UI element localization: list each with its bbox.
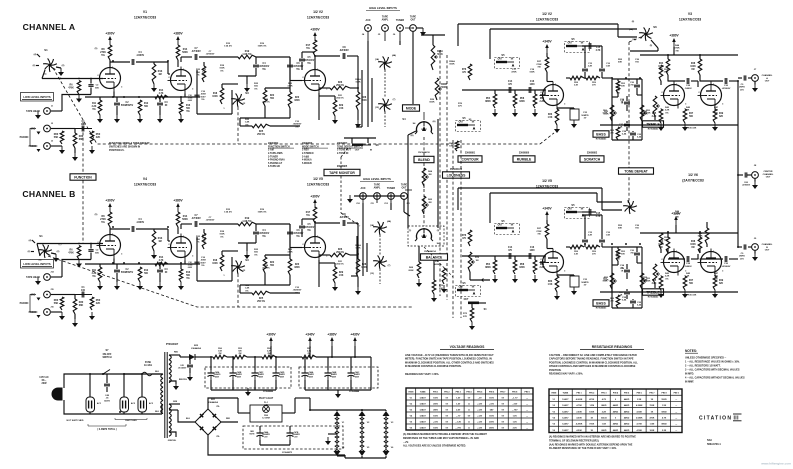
pot TREBLE RV3644242 — [642, 96, 660, 120]
svg-text:C16: C16 — [530, 247, 535, 249]
jack J7 CHANNEL A OUT — [752, 69, 773, 83]
svg-text:(5): (5) — [650, 45, 653, 47]
label SR2 — [191, 345, 202, 350]
wire long top — [458, 188, 622, 210]
svg-text:R33: R33 — [548, 281, 553, 283]
svg-text:V4: V4 — [342, 446, 345, 449]
svg-text:600V: 600V — [200, 96, 206, 98]
resistor R38 270 — [610, 127, 620, 140]
resistor R22 556 — [263, 257, 275, 273]
svg-text:R14: R14 — [159, 256, 164, 259]
resistor R55 820 2W — [233, 348, 247, 359]
svg-text:5%: 5% — [306, 47, 310, 50]
resistor R30 68K — [73, 133, 84, 148]
svg-text:100K: 100K — [219, 234, 225, 236]
svg-text:C9: C9 — [741, 253, 745, 255]
wire — [754, 165, 757, 182]
svg-text:C10: C10 — [295, 287, 300, 289]
wire — [399, 31, 401, 41]
svg-text:1.64 5%: 1.64 5% — [224, 45, 232, 48]
svg-text:S1: S1 — [39, 234, 43, 238]
svg-text:1K: 1K — [621, 271, 624, 273]
dashed gang line function A2 — [540, 133, 554, 144]
svg-text:.1/400V: .1/400V — [136, 221, 145, 224]
resistor R23 556 5% — [196, 57, 206, 82]
wire — [110, 228, 130, 230]
capacitor C2 680 — [88, 244, 99, 260]
svg-text:1.4K: 1.4K — [245, 287, 250, 290]
wire sec redyel — [169, 379, 188, 384]
voltage readings table — [406, 388, 533, 430]
notes list — [685, 357, 745, 384]
svg-text:5%: 5% — [201, 265, 204, 267]
svg-text:VOLTAGE READINGS: VOLTAGE READINGS — [450, 345, 485, 349]
svg-text:(2): (2) — [57, 251, 60, 253]
svg-text:560: 560 — [144, 273, 149, 275]
wire — [640, 47, 738, 55]
svg-text:100K: 100K — [219, 68, 225, 70]
jack J11 TAPE AMPL — [374, 184, 381, 200]
svg-text:MODE: MODE — [406, 106, 417, 110]
svg-text:12AX7: 12AX7 — [420, 415, 427, 418]
resistor R49 820 — [713, 276, 724, 290]
svg-text:470K: 470K — [649, 417, 654, 420]
svg-text:(B): (B) — [411, 135, 414, 137]
wire — [36, 54, 61, 68]
resistor R52 50K — [612, 247, 626, 265]
wire — [640, 225, 738, 233]
svg-text:R27: R27 — [537, 228, 542, 230]
ground — [173, 382, 179, 390]
wire — [256, 223, 290, 225]
svg-text:OUT: OUT — [766, 177, 771, 179]
label CITATION III — [699, 414, 742, 422]
ground — [59, 312, 65, 320]
svg-text:12AX7: 12AX7 — [562, 417, 569, 420]
svg-text:0V: 0V — [502, 404, 505, 406]
svg-text:TUBE: TUBE — [420, 392, 426, 394]
svg-text:+300V: +300V — [105, 199, 115, 203]
svg-text:.05/400V: .05/400V — [293, 289, 302, 292]
resistor R58 3.3K — [570, 76, 584, 86]
svg-text:R19: R19 — [260, 209, 265, 211]
wire heater bottom — [337, 455, 386, 458]
svg-text:.47/400V: .47/400V — [206, 219, 215, 222]
svg-text:600V: 600V — [188, 100, 193, 102]
svg-text:TERMINAL OF SELENIUM RECTIF: TERMINAL OF SELENIUM RECTIFIER (SR2). — [549, 439, 599, 442]
jack J13B TAPE OUT — [401, 184, 411, 206]
svg-text:540.Ω: 540.Ω — [601, 417, 607, 420]
wire — [566, 77, 612, 79]
svg-text:1/2 V5: 1/2 V5 — [542, 179, 552, 183]
svg-text:12AX7: 12AX7 — [562, 410, 569, 413]
svg-text:PIN 4: PIN 4 — [613, 392, 619, 395]
supply +300V — [105, 32, 115, 46]
svg-text:4.280K: 4.280K — [636, 404, 643, 407]
svg-text:C36: C36 — [635, 225, 640, 227]
wire — [566, 246, 612, 248]
wire — [42, 70, 45, 79]
svg-text:PT3644367: PT3644367 — [166, 343, 179, 346]
svg-text:100K: 100K — [649, 430, 654, 432]
svg-text:R52: R52 — [618, 59, 623, 61]
wire — [668, 233, 700, 237]
svg-text:2.2K: 2.2K — [662, 430, 667, 432]
resistor R14 560K — [176, 45, 188, 60]
svg-text:R19: R19 — [260, 43, 265, 45]
svg-text:500MFD/5V: 500MFD/5V — [121, 272, 134, 274]
capacitor C6 .005/400V — [287, 57, 304, 78]
svg-text:PIN 5: PIN 5 — [624, 393, 630, 395]
svg-text:(A) READINGS MARKED WITH TRIAN: (A) READINGS MARKED WITH TRIANGLE DEPEND… — [403, 433, 487, 436]
svg-text:LOW LEVEL INPUTS: LOW LEVEL INPUTS — [23, 262, 50, 266]
wire — [540, 256, 545, 262]
svg-text:470: 470 — [508, 83, 513, 86]
svg-text:1/2 V5: 1/2 V5 — [313, 177, 323, 181]
svg-text:12AX7: 12AX7 — [420, 397, 427, 400]
boxed label SCRATCH — [580, 156, 604, 162]
svg-text:556: 556 — [254, 86, 258, 88]
svg-text:+300V: +300V — [105, 32, 115, 36]
resistor R58 180K — [513, 94, 525, 108]
svg-text:+340V: +340V — [542, 207, 552, 211]
capacitor C9 2MFD 25V — [738, 244, 746, 260]
svg-text:1/2 V2: 1/2 V2 — [542, 12, 552, 16]
svg-text:880K: 880K — [485, 267, 491, 269]
svg-text:3: 3 — [326, 256, 328, 258]
resistor R52 270K — [100, 212, 112, 227]
wire — [314, 56, 316, 69]
jack J3 PHONO — [29, 141, 54, 150]
capacitor C2 680 — [88, 79, 99, 95]
label LOW LEVEL INPUTS — [21, 260, 54, 269]
svg-text:12AX7: 12AX7 — [420, 421, 427, 424]
ground — [97, 282, 103, 290]
label switch leads — [223, 103, 246, 110]
wire — [232, 357, 234, 370]
label 23606880 rumble — [519, 153, 530, 155]
wire — [700, 258, 738, 260]
svg-text:R20: R20 — [288, 249, 293, 251]
resistor R53 500K bass pot — [603, 273, 617, 289]
svg-text:330K: 330K — [294, 100, 300, 102]
svg-text:5%: 5% — [295, 126, 298, 128]
svg-text:1K: 1K — [621, 268, 624, 270]
svg-text:+380V: +380V — [327, 333, 337, 337]
svg-text:R73: R73 — [463, 313, 468, 315]
AC plug — [39, 376, 62, 400]
supply +340V — [542, 207, 552, 221]
svg-text:2.5K: 2.5K — [637, 399, 642, 401]
svg-text:R68: R68 — [409, 267, 414, 269]
svg-text:(4A): (4A) — [387, 220, 392, 223]
svg-text:1: 1 — [223, 108, 225, 110]
ground — [355, 287, 361, 295]
svg-text:2M: 2M — [428, 202, 431, 204]
ground — [76, 95, 82, 103]
wire — [319, 263, 335, 267]
svg-text:C28: C28 — [686, 263, 691, 265]
capacitor C3 30 — [157, 97, 168, 115]
wire — [495, 90, 535, 94]
capacitor C30 .47/400V — [722, 78, 731, 90]
svg-text:---: --- — [675, 430, 677, 432]
resistor R6 470K — [68, 246, 81, 260]
svg-text:(1): (1) — [409, 230, 412, 232]
label S4 — [402, 117, 406, 121]
heading RESISTANCE READINGS — [580, 345, 644, 350]
wire — [582, 45, 602, 47]
svg-text:750: 750 — [630, 85, 634, 87]
rotary switch S1 deck B3 — [373, 255, 387, 269]
resistor R29 1.5K — [333, 100, 344, 116]
svg-text:1.4V: 1.4V — [513, 415, 518, 418]
svg-text:4.75K: 4.75K — [637, 423, 643, 426]
supply tap +380V — [327, 333, 337, 358]
resistor R47 560K — [683, 109, 694, 123]
jack J5 TAPE AMPL — [382, 16, 389, 32]
svg-text:C16: C16 — [201, 257, 206, 259]
svg-text:5%: 5% — [186, 111, 189, 113]
outlet AC3 — [138, 397, 154, 412]
svg-text:---: --- — [680, 407, 683, 411]
svg-text:2.2K: 2.2K — [92, 106, 97, 108]
wire jack row B — [347, 195, 404, 203]
svg-text:S4: S4 — [413, 122, 416, 125]
rotary switch S1 channel A — [33, 48, 65, 76]
rotary switch S6 A — [639, 25, 657, 41]
switch position list 23644656 — [302, 142, 328, 165]
svg-text:3: 3 — [564, 271, 566, 273]
svg-text:C38: C38 — [622, 131, 627, 133]
svg-text:500K: 500K — [603, 114, 609, 116]
wire — [181, 94, 185, 103]
svg-text:5%: 5% — [220, 236, 223, 238]
svg-text:POSITION, LOUDNESS CONTROL: POSITION, LOUDNESS CONTROL IN MAXIMUM CL… — [549, 361, 638, 364]
wire — [347, 223, 358, 255]
svg-text:---: --- — [675, 405, 677, 407]
svg-text:+10V: +10V — [489, 404, 494, 406]
svg-text:180K: 180K — [519, 101, 525, 103]
svg-text:ITEM: ITEM — [408, 392, 413, 394]
wire — [221, 418, 238, 422]
ground — [658, 290, 664, 298]
svg-text:53H: 53H — [707, 439, 712, 442]
svg-text:POSITION.: POSITION. — [549, 369, 562, 372]
wire tone network box — [612, 79, 642, 140]
label LOW LEVEL INPUTS — [21, 93, 54, 102]
resistor R47 560K — [683, 276, 694, 290]
svg-text:RED: RED — [174, 352, 179, 354]
svg-text:PIN 2: PIN 2 — [444, 392, 450, 394]
svg-text:TAPE MONITOR: TAPE MONITOR — [329, 171, 355, 175]
svg-text:5%: 5% — [296, 236, 299, 238]
svg-text:AMPL: AMPL — [382, 19, 389, 22]
svg-text:R76: R76 — [462, 69, 467, 71]
ground — [151, 84, 157, 92]
svg-text:100K: 100K — [589, 411, 594, 413]
wire grid — [37, 243, 103, 245]
filter capacitor C45D — [273, 370, 286, 380]
svg-text:560: 560 — [186, 108, 191, 110]
svg-text:C7: C7 — [209, 51, 213, 53]
wire — [62, 294, 75, 296]
svg-text:R44: R44 — [675, 44, 680, 47]
svg-text:2.2K: 2.2K — [588, 66, 593, 68]
svg-text:3: 3 — [685, 104, 687, 106]
svg-text:50K: 50K — [618, 228, 622, 230]
svg-text:3: 3 — [722, 271, 724, 273]
wire — [547, 53, 553, 82]
svg-text:V3: V3 — [688, 12, 692, 16]
wire — [74, 295, 76, 320]
svg-text:12AX7: 12AX7 — [420, 409, 427, 412]
filter capacitor C47B — [287, 430, 301, 440]
footnote resistance — [549, 436, 636, 451]
svg-text:500K: 500K — [642, 280, 648, 282]
svg-text:200V: 200V — [489, 422, 494, 424]
ground — [114, 115, 120, 123]
svg-text:--10V: --10V — [512, 404, 518, 406]
svg-text:470K: 470K — [511, 71, 517, 74]
ground — [752, 84, 758, 92]
svg-text:(1A): (1A) — [632, 38, 636, 41]
svg-text:100K: 100K — [212, 96, 218, 98]
svg-text:3 -- ALL CAPACITORS WITH DE: 3 -- ALL CAPACITORS WITH DECIMAL VALUES — [685, 369, 740, 372]
svg-text:R45: R45 — [686, 106, 691, 109]
dashed gang line function B — [48, 256, 412, 307]
wire — [222, 251, 238, 255]
svg-text:0V: 0V — [502, 416, 505, 418]
svg-text:+300V: +300V — [266, 333, 276, 337]
svg-text:OUT: OUT — [567, 42, 573, 45]
ground — [58, 68, 64, 76]
svg-text:V2: V2 — [410, 404, 413, 406]
svg-text:3: 3 — [192, 89, 194, 91]
svg-text:C16: C16 — [201, 91, 206, 93]
ground — [187, 373, 193, 381]
transformer T1 — [161, 352, 172, 438]
svg-text:V6: V6 — [391, 447, 394, 449]
svg-text:5-PHONO-LP: 5-PHONO-LP — [268, 163, 283, 165]
wire — [275, 357, 277, 370]
svg-text:5%: 5% — [101, 54, 105, 57]
svg-text:R72: R72 — [475, 257, 480, 259]
wire — [668, 254, 698, 259]
label BLK bottom — [155, 411, 160, 413]
boxed label BASS — [593, 300, 609, 310]
svg-text:V2: V2 — [552, 405, 555, 407]
svg-text:R25: R25 — [245, 119, 250, 121]
wire C16 box — [197, 237, 232, 281]
capacitor C7 .47/400V — [191, 47, 201, 60]
jack J14 TAPE HEAD — [26, 271, 54, 281]
svg-text:5%: 5% — [201, 99, 204, 101]
svg-text:R48: R48 — [691, 62, 696, 65]
wire blend rail right — [434, 119, 438, 228]
svg-text:470: 470 — [462, 237, 467, 240]
ground — [245, 388, 251, 396]
svg-text:R65: R65 — [428, 199, 433, 201]
svg-text:C30: C30 — [724, 85, 729, 87]
svg-text:5-44: 5-44 — [637, 136, 642, 139]
svg-text:S7: S7 — [106, 349, 110, 352]
svg-text:50MFD: 50MFD — [581, 282, 589, 284]
svg-text:R33: R33 — [548, 114, 553, 116]
svg-text:J9: J9 — [754, 238, 757, 240]
triode V3b — [698, 82, 725, 109]
svg-text:4.7K: 4.7K — [159, 92, 164, 95]
svg-text:5%: 5% — [307, 63, 310, 65]
svg-text:IN: IN — [370, 150, 373, 152]
svg-text:5%: 5% — [186, 278, 189, 280]
resistor R54 100K — [659, 233, 669, 253]
svg-text:(6): (6) — [33, 65, 36, 67]
svg-text:600V: 600V — [200, 262, 206, 264]
label CHANNEL A — [23, 22, 76, 32]
svg-text:V1: V1 — [342, 422, 345, 424]
wire top rail — [88, 373, 162, 375]
capacitor C4b .005/400V — [253, 57, 270, 76]
svg-text:750: 750 — [630, 253, 634, 255]
svg-text:.47/400V: .47/400V — [206, 53, 215, 56]
svg-text:V1: V1 — [143, 10, 147, 14]
svg-text:R76: R76 — [458, 103, 463, 105]
svg-text:RED: RED — [226, 418, 231, 420]
svg-text:IN MFD.: IN MFD. — [685, 373, 694, 376]
svg-text:J1: J1 — [51, 106, 54, 108]
svg-text:C3: C3 — [165, 269, 169, 271]
rotary switch S1 deck B2 — [373, 221, 387, 235]
svg-text:RV3644242: RV3644242 — [648, 128, 659, 131]
svg-text:PIN 8: PIN 8 — [512, 392, 518, 394]
svg-text:---: --- — [675, 399, 677, 401]
svg-text:+380V: +380V — [669, 34, 679, 38]
capacitor C48 — [104, 374, 111, 402]
svg-text:4.000K: 4.000K — [576, 398, 583, 401]
resistor R52 50K — [612, 79, 626, 97]
svg-text:2.2K: 2.2K — [92, 273, 97, 275]
wire — [51, 128, 62, 130]
svg-text:A: A — [766, 77, 768, 80]
capacitor C4b .005/400V — [253, 224, 270, 243]
wire — [51, 110, 62, 112]
svg-text:BASS: BASS — [596, 301, 606, 305]
svg-text:R45: R45 — [652, 279, 657, 282]
dashed box JC3644666 — [205, 367, 291, 393]
dashed diagonal balance — [424, 247, 453, 277]
wire — [350, 357, 352, 370]
resistor R11 2.2K — [92, 100, 102, 115]
jack J15 MIC — [31, 289, 55, 298]
svg-text:R26: R26 — [338, 249, 343, 251]
svg-text:JC3644373: JC3644373 — [282, 451, 293, 454]
resistor R17 100K — [306, 207, 317, 223]
wire — [109, 60, 111, 67]
svg-text:.1/400V: .1/400V — [684, 87, 692, 90]
wire — [289, 255, 291, 259]
svg-text:OUT: OUT — [410, 19, 416, 22]
wire — [582, 214, 602, 216]
wire — [357, 88, 359, 120]
svg-text:R47: R47 — [714, 272, 719, 275]
dash mark — [680, 407, 683, 411]
svg-text:AUX: AUX — [365, 19, 370, 22]
svg-text:R20: R20 — [288, 83, 293, 85]
wire — [302, 51, 315, 53]
wire — [290, 57, 302, 81]
svg-text:--.75V: --.75V — [455, 428, 461, 430]
